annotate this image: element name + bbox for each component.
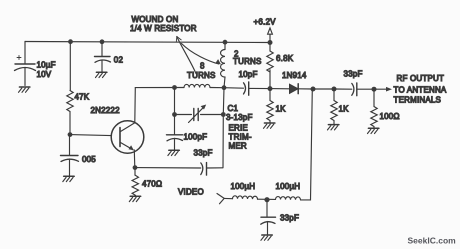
svg-text:RF OUTPUT: RF OUTPUT [397, 74, 445, 83]
inductor 100uH left [233, 196, 258, 199]
transistor Q1 2N2222 [111, 121, 144, 154]
svg-text:10µF: 10µF [37, 61, 56, 70]
svg-text:100µH: 100µH [276, 182, 301, 191]
node junction tank bottom right [221, 112, 226, 117]
wire RF output arrow [374, 87, 392, 92]
inductor 100uH right [276, 197, 301, 200]
svg-text:33pF: 33pF [280, 214, 299, 223]
svg-text:1K: 1K [339, 105, 350, 114]
svg-text:VIDEO: VIDEO [178, 188, 204, 197]
svg-text:33pF: 33pF [344, 70, 363, 79]
resistor 47K [67, 42, 73, 134]
svg-text:1K: 1K [276, 105, 287, 114]
node junction rail-47K [68, 39, 73, 44]
svg-text:47K: 47K [75, 93, 90, 102]
node junction base/47K/.005 [68, 132, 73, 137]
svg-text:WOUND ON: WOUND ON [132, 15, 179, 24]
svg-text:+6.2V: +6.2V [254, 18, 277, 27]
svg-text:ERIE: ERIE [229, 124, 248, 133]
ground 470 ohm [130, 195, 141, 197]
svg-text:005: 005 [82, 155, 96, 164]
wire tank link vertical [223, 88, 224, 168]
wire base [70, 135, 111, 136]
svg-text:C1: C1 [228, 104, 239, 113]
svg-text:100µH: 100µH [231, 182, 256, 191]
ground 33pF video [262, 234, 273, 236]
node junction video filter [264, 197, 269, 202]
leader arrow to 8 turns [176, 37, 196, 74]
node junction diode anode [268, 86, 273, 91]
resistor 6.8K [267, 43, 273, 89]
node junction 1K shunt [332, 87, 337, 92]
svg-text:100Ω: 100Ω [380, 112, 400, 121]
svg-text:1/4 W RESISTOR: 1/4 W RESISTOR [130, 24, 197, 33]
node junction tank top right [222, 85, 227, 90]
svg-text:10V: 10V [37, 70, 52, 79]
node junction emitter [133, 165, 138, 170]
resistor 470 ohm [132, 168, 138, 197]
svg-text:1N914: 1N914 [282, 71, 307, 80]
svg-text:10pF: 10pF [239, 70, 258, 79]
svg-text:2N2222: 2N2222 [91, 106, 121, 115]
capacitor 10uF 10V electrolytic [15, 42, 36, 86]
svg-text:8: 8 [200, 62, 205, 71]
svg-text:TERMINALS: TERMINALS [394, 96, 442, 105]
node junction rail-.02 [100, 39, 105, 44]
wire 10pF row [224, 87, 244, 90]
svg-text:TURNS: TURNS [187, 71, 216, 80]
resistor 1K right [331, 89, 337, 125]
ground for .02 [96, 71, 107, 73]
wire tank bottom line [175, 114, 224, 116]
wire cathode to 1K [313, 88, 334, 90]
node junction tank top left [172, 85, 177, 90]
svg-text:TURNS: TURNS [233, 57, 262, 66]
node junction tank bottom left [172, 112, 177, 117]
capacitor 33pF series output [352, 83, 374, 96]
node junction RF output [372, 87, 377, 92]
capacitor 10pF [244, 82, 271, 95]
ground 1K left [264, 122, 275, 124]
svg-text:TO ANTENNA: TO ANTENNA [394, 86, 447, 95]
node junction rail 6.8K [268, 40, 273, 45]
power +6.2V terminal [268, 28, 273, 42]
wire tank top line [135, 87, 224, 89]
capacitor 100pF [167, 115, 183, 150]
svg-text:6.8K: 6.8K [276, 54, 294, 63]
svg-text:MER: MER [229, 142, 247, 151]
resistor 1K left [267, 89, 273, 123]
svg-text:100pF: 100pF [184, 133, 208, 142]
ground for 005 [64, 175, 74, 177]
ground 100pF [169, 149, 180, 151]
wire emitter vertical [133, 150, 136, 168]
wire to diode [270, 88, 290, 90]
wire top supply rail [25, 42, 270, 43]
svg-text:02: 02 [114, 56, 124, 65]
capacitor C1 trimmer 3-13pF [189, 105, 207, 123]
capacitor 005 [61, 135, 79, 176]
ground 1K right [328, 124, 339, 126]
wire emitter coupling [135, 167, 201, 169]
ground for 10uF [19, 86, 30, 88]
svg-text:33pF: 33pF [194, 149, 213, 158]
capacitor 33pF video shunt [261, 200, 276, 235]
node junction diode cathode [311, 87, 316, 92]
svg-text:470Ω: 470Ω [142, 180, 162, 189]
wire collector riser [134, 88, 137, 123]
svg-text:3-13pF: 3-13pF [226, 113, 253, 122]
wire video line left [224, 197, 232, 199]
capacitor .02 [95, 42, 111, 72]
ground 100 ohm [368, 127, 379, 129]
svg-text:TRIM-: TRIM- [229, 133, 252, 142]
connector VIDEO input arrow [217, 194, 224, 204]
wire tank left vertical [174, 88, 176, 115]
resistor 100 ohm [371, 89, 377, 128]
capacitor 33pF emitter [201, 163, 223, 176]
node junction rail 2-turns [223, 40, 228, 45]
diode D1 1N914 [290, 84, 314, 94]
wire to 33pF [334, 88, 352, 90]
wire video line right + riser to diode [301, 89, 313, 200]
inductor L1 8 TURNS [184, 84, 210, 87]
leader arrow to 2 turns [182, 44, 222, 65]
svg-text:SeekIC.com: SeekIC.com [408, 236, 457, 246]
inductor L2 2 TURNS link [221, 42, 225, 87]
wire video line mid [258, 198, 276, 200]
